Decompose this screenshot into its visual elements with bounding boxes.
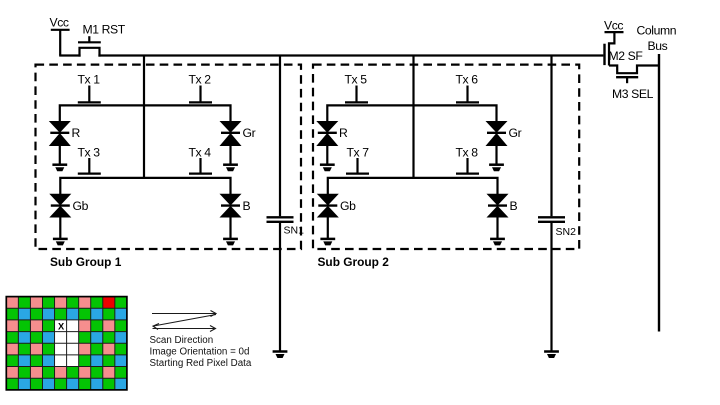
svg-text:Bus: Bus (648, 39, 668, 53)
svg-text:Vcc: Vcc (50, 16, 69, 30)
photodiode B sub1 (220, 194, 242, 239)
svg-text:Tx 3: Tx 3 (78, 146, 101, 160)
svg-text:Gr: Gr (509, 126, 522, 140)
ground B sub1 (223, 239, 238, 246)
wire subgroup1 center drop (143, 56, 145, 179)
gate Tx 3 (78, 158, 101, 174)
wire subgroup2 row1 (327, 105, 496, 121)
svg-text:Tx 7: Tx 7 (347, 146, 370, 160)
ground Gr sub2 (489, 165, 504, 172)
scan arrow bottom (153, 326, 216, 332)
ground Gr sub1 (223, 165, 238, 172)
capacitor SN2 (538, 217, 565, 222)
wire subgroup1 row2 (60, 178, 230, 194)
gate Tx 5 (345, 86, 368, 103)
svg-text:Tx 6: Tx 6 (456, 73, 479, 87)
wire SN1 top (279, 56, 281, 217)
svg-text:R: R (339, 126, 348, 140)
svg-text:Column: Column (637, 24, 677, 38)
svg-text:Tx 4: Tx 4 (189, 146, 212, 160)
wire Vcc to M1 source (59, 54, 80, 56)
ground B sub2 (490, 239, 505, 246)
scan arrow top (152, 311, 216, 317)
svg-text:Sub Group 1: Sub Group 1 (50, 255, 122, 269)
gate Tx 4 (189, 158, 212, 174)
ground Gb sub1 (53, 239, 68, 246)
photodiode R sub2 (316, 121, 338, 165)
ground Gb sub2 (320, 239, 335, 246)
svg-text:B: B (510, 199, 518, 213)
capacitor SN1 (267, 217, 294, 222)
transistor M1 RST (78, 36, 101, 56)
wire subgroup2 center drop (412, 56, 414, 179)
photodiode R sub1 (49, 121, 71, 165)
photodiode Gb sub1 (49, 194, 71, 239)
gate Tx 8 (456, 158, 479, 174)
svg-text:M2 SF: M2 SF (609, 49, 643, 63)
svg-text:R: R (72, 126, 81, 140)
ground R sub1 (52, 165, 67, 172)
svg-text:Gr: Gr (243, 126, 256, 140)
svg-text:Vcc: Vcc (604, 19, 623, 33)
photodiode B sub2 (487, 194, 509, 239)
wire column bus (658, 54, 660, 332)
svg-text:Tx 8: Tx 8 (456, 146, 479, 160)
photodiode Gb sub2 (317, 194, 339, 239)
wire top rail M1 to M2 gate (98, 54, 603, 56)
gate Tx 7 (346, 158, 369, 174)
wire subgroup1 row1 (60, 105, 231, 121)
svg-text:M3 SEL: M3 SEL (612, 87, 654, 101)
svg-text:Image Orientation = 0d: Image Orientation = 0d (150, 347, 250, 358)
gate Tx 2 (189, 86, 212, 103)
svg-text:Tx 5: Tx 5 (345, 73, 368, 87)
svg-text:Gb: Gb (340, 199, 356, 213)
power Vcc left (51, 30, 70, 56)
transistor M3 SEL gate (616, 77, 638, 83)
svg-text:Gb: Gb (73, 199, 89, 213)
subgroup1 dashed box (36, 65, 302, 249)
gate Tx 6 (456, 86, 479, 103)
svg-text:SN2: SN2 (556, 226, 577, 238)
svg-text:X: X (58, 322, 65, 332)
transistor M2 SF (605, 43, 661, 73)
ground SN2 (544, 352, 559, 359)
scan arrow diagonal (153, 315, 216, 330)
svg-text:Tx 1: Tx 1 (78, 73, 101, 87)
ground R sub2 (320, 165, 335, 172)
photodiode Gr sub1 (220, 121, 242, 165)
gate Tx 1 (78, 86, 101, 103)
wire SN2 top (550, 56, 552, 217)
svg-text:B: B (243, 199, 251, 213)
wire subgroup2 row2 (328, 178, 498, 194)
power Vcc right (605, 32, 624, 43)
wire SN2 bottom (550, 223, 552, 352)
svg-text:Sub Group 2: Sub Group 2 (318, 255, 390, 269)
svg-text:M1 RST: M1 RST (83, 23, 126, 37)
svg-text:Tx 2: Tx 2 (189, 73, 212, 87)
wire SN1 bottom (279, 223, 281, 352)
svg-text:Starting Red Pixel Data: Starting Red Pixel Data (150, 358, 252, 369)
subgroup2 dashed box (313, 65, 579, 249)
ground SN1 (273, 352, 288, 359)
photodiode Gr sub2 (486, 121, 508, 165)
bayer pixel grid (6, 297, 127, 390)
svg-text:Scan Direction: Scan Direction (150, 335, 214, 346)
